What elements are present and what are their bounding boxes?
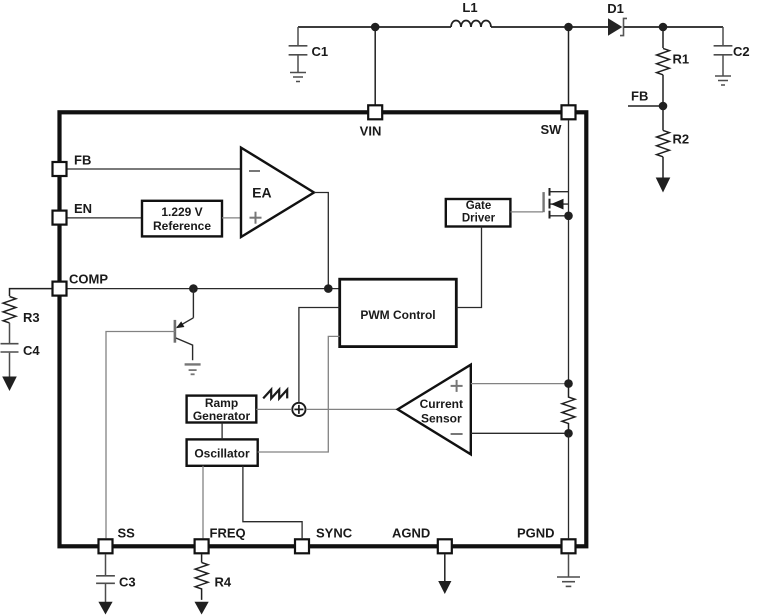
- diode D1: [608, 18, 627, 35]
- op-amp EA: [241, 148, 314, 237]
- node sense resistor top: [564, 379, 573, 388]
- wire FB pin to EA inverting input: [68, 168, 242, 170]
- svg-text:R1: R1: [673, 52, 690, 67]
- current sensor plus sign: [451, 380, 463, 392]
- svg-text:FB: FB: [631, 89, 648, 104]
- svg-text:Sensor: Sensor: [421, 411, 462, 425]
- svg-text:PGND: PGND: [517, 526, 555, 541]
- ground arrow below AGND: [438, 581, 451, 594]
- wire current sensor minus input: [471, 432, 568, 434]
- wire gate driver down to PWM control: [456, 227, 481, 308]
- wire sense resistor to PGND pin: [568, 433, 570, 538]
- pin SYNC: [295, 539, 309, 553]
- capacitor C3: [96, 554, 115, 603]
- pin FB: [53, 162, 67, 176]
- wire ramp generator to oscillator: [221, 423, 223, 440]
- svg-text:C4: C4: [23, 343, 40, 358]
- pin AGND: [438, 539, 452, 553]
- wire PGND pin to ground: [568, 554, 570, 576]
- ground arrow below C4: [2, 377, 17, 392]
- wire SW junction down to SW pin: [568, 27, 570, 105]
- Ramp Generator box: [187, 396, 257, 423]
- resistor R2: [657, 106, 670, 178]
- svg-text:FB: FB: [74, 153, 91, 168]
- node FB divider junction: [659, 102, 668, 111]
- svg-text:SS: SS: [118, 526, 136, 541]
- wire ramp generator to summing junction: [256, 408, 292, 410]
- svg-text:SYNC: SYNC: [316, 526, 353, 541]
- ground below PGND: [557, 577, 580, 586]
- node transistor emitter junction: [189, 284, 198, 293]
- pin COMP: [53, 282, 67, 296]
- inductor L1: [451, 21, 491, 28]
- wire AGND pin to ground arrow: [444, 554, 446, 581]
- transistor Q1 (PNP): [175, 289, 194, 361]
- node sense resistor bottom: [564, 429, 573, 438]
- wire R1 to FB node: [662, 75, 664, 106]
- wire oscillator to FREQ pin: [202, 466, 204, 539]
- resistor R1: [657, 48, 670, 74]
- capacitor C1: [289, 27, 308, 72]
- sawtooth ramp symbol: [263, 390, 287, 399]
- wire EN pin to reference: [68, 217, 143, 219]
- PWM Control box: [340, 279, 457, 346]
- svg-text:PWM Control: PWM Control: [360, 308, 435, 322]
- pin SS: [99, 539, 113, 553]
- summing junction: [292, 403, 305, 416]
- EA minus sign: [249, 170, 260, 172]
- wire COMP rail: [68, 288, 340, 290]
- op-amp current sensor: [398, 365, 471, 455]
- svg-text:L1: L1: [462, 0, 477, 15]
- wire top rail from C1 to L1: [298, 26, 451, 28]
- Gate Driver box: [446, 199, 511, 227]
- ground arrow below R4: [195, 602, 209, 615]
- wire VIN junction down to VIN pin: [374, 27, 376, 105]
- node MOSFET source junction: [564, 212, 573, 221]
- svg-text:AGND: AGND: [392, 526, 430, 541]
- pin VIN: [368, 105, 382, 119]
- ground below C1: [290, 73, 306, 82]
- wire PWM control to summing junction: [299, 308, 340, 403]
- svg-text:COMP: COMP: [69, 272, 108, 287]
- node VIN rail junction: [371, 23, 380, 32]
- current sensor text: [420, 397, 463, 425]
- wire L1 to D1: [491, 26, 608, 28]
- IC block boundary: [60, 112, 587, 546]
- ground below Q1: [185, 364, 201, 374]
- wire COMP pin out to R3: [10, 289, 52, 296]
- svg-text:EN: EN: [74, 201, 92, 216]
- svg-text:Driver: Driver: [462, 213, 496, 225]
- svg-text:Gate: Gate: [466, 200, 492, 212]
- wire current sensor plus input: [471, 383, 568, 385]
- node SW rail junction: [564, 23, 573, 32]
- reference box text: [153, 205, 211, 233]
- svg-text:R4: R4: [215, 575, 232, 590]
- resistor R3: [3, 297, 16, 323]
- wire EA output to COMP node: [314, 193, 328, 289]
- reference box 1.229 V: [142, 201, 222, 237]
- wire FB stub: [628, 105, 663, 107]
- svg-text:C3: C3: [119, 575, 136, 590]
- wire summing junction to current sensor: [306, 408, 398, 410]
- Gate Driver text: [462, 200, 496, 224]
- svg-text:1.229 V: 1.229 V: [161, 205, 202, 219]
- wire gate driver to MOSFET gate: [510, 211, 543, 213]
- svg-text:Oscillator: Oscillator: [194, 447, 250, 461]
- ground below C2: [715, 76, 731, 85]
- ground arrow below R2: [656, 178, 671, 193]
- sense resistor: [562, 384, 575, 434]
- svg-text:R3: R3: [23, 310, 40, 325]
- capacitor C2: [714, 27, 733, 76]
- capacitor C4: [1, 323, 19, 377]
- svg-text:Current: Current: [420, 397, 463, 411]
- svg-text:R2: R2: [673, 132, 690, 147]
- ground arrow below C3: [98, 602, 112, 615]
- wire D1 to C2: [624, 26, 723, 28]
- wire Q1 base to SS pin: [106, 332, 175, 539]
- svg-text:SW: SW: [541, 122, 563, 137]
- Oscillator box: [187, 439, 258, 465]
- wire SW pin down through MOSFET to sense resistor: [568, 120, 570, 383]
- svg-text:FREQ: FREQ: [210, 526, 246, 541]
- pin FREQ: [195, 539, 209, 553]
- resistor R4: [195, 554, 208, 600]
- svg-text:D1: D1: [607, 1, 624, 16]
- pin EN: [53, 211, 67, 225]
- svg-text:C2: C2: [733, 44, 750, 59]
- svg-text:EA: EA: [252, 185, 271, 201]
- svg-text:Reference: Reference: [153, 219, 211, 233]
- transistor M1 power MOSFET: [544, 188, 569, 219]
- node EA output junction: [324, 284, 333, 293]
- svg-text:Generator: Generator: [193, 409, 251, 423]
- svg-text:C1: C1: [312, 44, 329, 59]
- current sensor minus sign: [451, 433, 463, 435]
- svg-text:VIN: VIN: [360, 124, 382, 139]
- EA plus sign: [250, 212, 262, 224]
- pin PGND: [562, 539, 576, 553]
- pin SW: [562, 105, 576, 119]
- node D1 output junction: [659, 23, 668, 32]
- wire D1 node down to R1: [662, 27, 664, 48]
- wire reference to EA non-inverting input: [222, 217, 241, 219]
- wire oscillator to SYNC pin: [243, 466, 302, 539]
- Ramp Generator text: [193, 396, 251, 423]
- wire oscillator to PWM control: [258, 336, 340, 452]
